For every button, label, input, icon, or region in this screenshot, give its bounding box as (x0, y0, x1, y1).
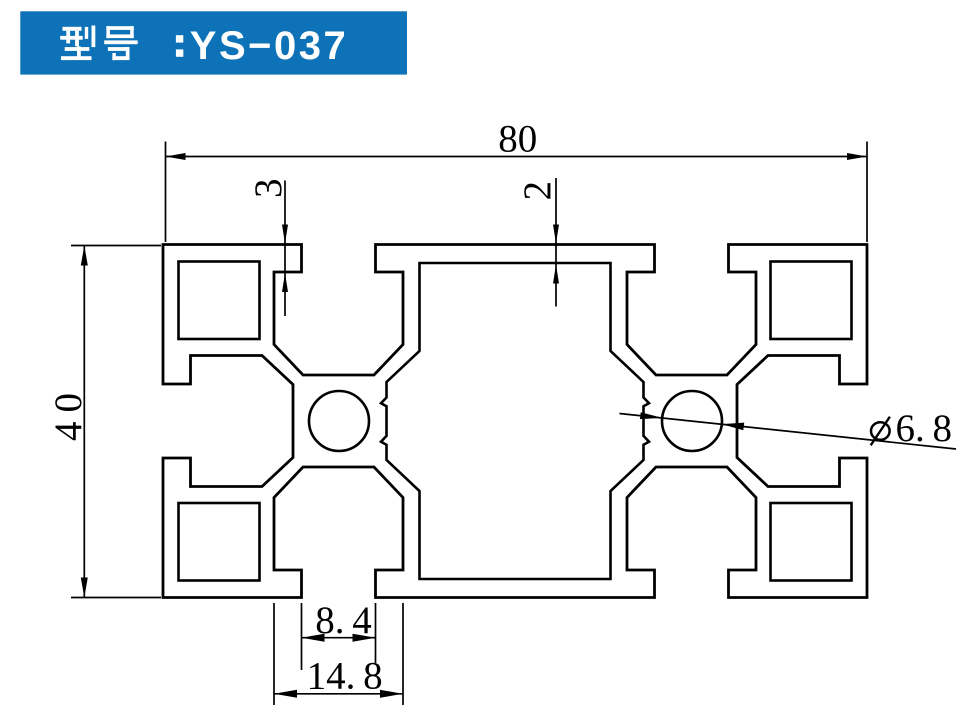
right bore circle (662, 391, 722, 451)
svg-text:40: 40 (47, 384, 90, 441)
corner square TL (179, 262, 260, 340)
svg-text:6. 8: 6. 8 (896, 407, 953, 450)
left bore circle (309, 391, 369, 451)
dimension 3 (247, 178, 290, 316)
dimension 14.8 (274, 603, 403, 705)
center cavity (381, 263, 649, 579)
char 型 (60, 26, 95, 61)
dimension 80 (166, 118, 868, 243)
corner square BL (179, 503, 260, 581)
dimension 2 (516, 178, 559, 307)
model badge (20, 11, 407, 74)
dimension dia 6.8 leader (620, 407, 957, 450)
corner square TR (771, 262, 852, 340)
corner square BR (771, 503, 852, 581)
colon (176, 35, 183, 42)
char 号 (104, 26, 138, 60)
dimension 8.4 (302, 599, 376, 670)
svg-text:80: 80 (498, 118, 537, 161)
svg-text:YS−037: YS−037 (190, 24, 348, 68)
dimension 40 (47, 246, 161, 598)
svg-text:3: 3 (247, 178, 290, 198)
svg-text:8. 4: 8. 4 (315, 599, 372, 642)
svg-text:2: 2 (516, 181, 559, 201)
svg-text:14. 8: 14. 8 (307, 655, 383, 698)
profile outer contour (163, 245, 867, 598)
